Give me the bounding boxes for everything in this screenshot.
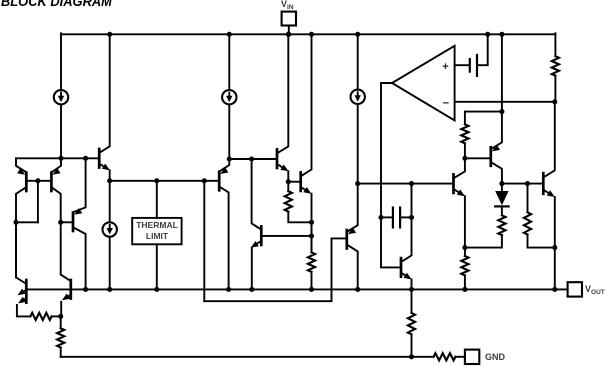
label VIN — [281, 0, 294, 9]
capacitor C1 — [381, 216, 393, 218]
wire 411 down — [411, 184, 413, 255]
wire -input rail — [455, 101, 555, 103]
transistor Q9 (PNP) — [345, 230, 348, 249]
wire top bus left drop to I1 — [60, 33, 62, 90]
resistor R9 horizontal — [30, 313, 51, 320]
wire thermal bottom — [156, 244, 158, 289]
node Q11 collector dot — [462, 156, 467, 161]
node Q2 collector dot — [58, 220, 63, 225]
block THERMAL LIMIT — [132, 218, 181, 244]
terminal VOUT — [568, 282, 582, 296]
wire R11 to GND terminal — [455, 356, 465, 358]
svg-text:−: − — [443, 97, 449, 109]
node D dot — [58, 314, 63, 319]
transistor Q11 (NPN) — [452, 174, 455, 193]
node R4/Q12 emitter dot — [499, 109, 504, 114]
transistor Q6 (NPN) — [276, 149, 279, 168]
node R3 bus dot — [309, 287, 314, 292]
node cap right dot — [409, 215, 414, 220]
node base-tie dot — [35, 178, 40, 183]
resistor R6 — [527, 184, 529, 213]
resistor R8 emitter — [461, 256, 468, 275]
label GND — [485, 352, 505, 362]
node R7 gnd dot — [409, 354, 414, 359]
wire base tie down — [37, 181, 39, 223]
node Q3 collector bus dot — [83, 287, 88, 292]
wire Q6em to Q8 base — [288, 181, 299, 183]
transistor Q2 (PNP) — [50, 173, 53, 191]
node opamp-cap dot — [378, 215, 383, 220]
transistor Q13 (NPN) — [542, 173, 545, 194]
node Q8 top bus dot — [309, 32, 314, 37]
transistor Q12 (PNP) — [489, 147, 492, 166]
wire 204 down — [203, 181, 205, 301]
transistor Q8 (NPN) — [299, 172, 302, 191]
resistor R5 — [498, 215, 505, 235]
wire Q1-Q2 base tie — [26, 180, 51, 182]
wire Q1col down to T1 — [16, 222, 25, 283]
current source I2 — [222, 90, 236, 104]
op-amp U1 — [392, 46, 455, 121]
node R2 dot — [309, 220, 314, 225]
node Q4 top bus dot — [107, 32, 112, 37]
wire +input to battery — [455, 64, 470, 66]
wire Q2col to Q3 base / T2 — [61, 221, 72, 223]
transistor T2 (NPN mirrored) — [69, 280, 72, 299]
node VIN junction — [286, 32, 291, 37]
wire GND return — [61, 356, 434, 358]
node thermal rail dot — [154, 178, 159, 183]
node Q4 emitter dot — [107, 178, 112, 183]
node 527 dot — [525, 181, 530, 186]
node I2 top dot — [227, 32, 232, 37]
node I3 top dot — [355, 32, 360, 37]
resistor R10 — [60, 316, 62, 328]
wire output down to Q10 base — [381, 217, 400, 267]
wire top bus right drop to R1 — [554, 33, 556, 56]
diode D1 — [501, 184, 503, 191]
transistor Q10 (NPN) — [400, 258, 403, 277]
node Q5 collector bus dot — [226, 287, 231, 292]
transistor Q5 (PNP) — [218, 172, 221, 191]
node Q6 emitter dot — [286, 179, 291, 184]
transistor Q7 (NPN mirrored) — [260, 226, 263, 245]
wire thermal top — [156, 181, 158, 218]
wire I1 to node A — [60, 104, 62, 158]
wire R4 top — [465, 111, 502, 113]
node C dot — [355, 181, 360, 186]
node 411 dot — [409, 181, 414, 186]
resistor R11 gnd — [434, 353, 456, 360]
label VOUT — [585, 284, 605, 294]
node dot Q3/Q4 base — [83, 156, 88, 161]
wire node222 left — [16, 221, 38, 223]
battery V1 plates — [469, 59, 471, 72]
transistor Q1 (PNP) — [25, 173, 28, 191]
wire base rail to Q12 — [465, 157, 490, 159]
wire nodeB to Q6 base — [229, 158, 275, 160]
resistor R4 — [464, 112, 466, 125]
transistor T1 (NPN dual emitter) — [25, 280, 28, 303]
wire top VIN bus — [61, 33, 555, 35]
current source I4 thermal — [103, 222, 117, 236]
current source I3 — [351, 90, 365, 104]
node Q9 collector bus dot — [355, 287, 360, 292]
node Q13 bus dot — [552, 287, 557, 292]
heading text (clipped at top) — [1, 0, 112, 9]
wire bus to 502 node — [501, 34, 503, 111]
node Q10 emitter bus dot — [409, 287, 414, 292]
label THERMAL LIMIT — [132, 220, 182, 241]
node 502 top bus dot — [499, 32, 504, 37]
resistor R3 — [311, 222, 313, 252]
node 251 dot — [249, 156, 254, 161]
wire 251 down to Q7 collector — [252, 159, 261, 229]
node 204 rail dot — [202, 178, 207, 183]
wire Q4 emitter node to I4 — [109, 181, 111, 223]
node Q7 emitter bus dot — [249, 287, 254, 292]
wire Q13 emitter to bus — [554, 248, 556, 290]
wire node-A base rail — [16, 157, 98, 159]
wire I4 to bottom bus — [109, 237, 111, 290]
svg-text:+: + — [442, 61, 448, 73]
resistor R7 sense — [411, 289, 413, 313]
transistor Q3 (PNP) — [72, 213, 75, 231]
node thermal bus dot — [154, 287, 159, 292]
node Q1 collector dot — [13, 220, 18, 225]
terminal GND — [465, 350, 479, 364]
resistor R2 base-emitter — [287, 182, 289, 192]
terminal VIN — [282, 12, 296, 26]
wire op-amp output — [381, 83, 392, 217]
transistor Q4 (NPN) — [98, 149, 101, 168]
wire battery to bus — [477, 34, 488, 65]
wire Q12col to Q13 base — [502, 183, 542, 185]
current source I1 — [54, 90, 68, 104]
wire bottom bus — [26, 288, 567, 290]
node I4 bottom dot — [107, 287, 112, 292]
wire R9 to node D — [52, 315, 61, 317]
node R6 dot — [552, 245, 557, 250]
node Q6 top bus dot — [286, 32, 291, 37]
wire I2 to node B — [228, 104, 230, 159]
node R8 bus dot — [462, 287, 467, 292]
node -input dot — [552, 99, 557, 104]
node A dot I1/Q2 — [58, 156, 63, 161]
node battery bus dot — [485, 32, 490, 37]
resistor R1 — [552, 56, 559, 75]
wire I3 to node C — [357, 104, 359, 184]
wire top bus to I2 — [228, 34, 230, 90]
node Q12 collector dot — [499, 181, 504, 186]
node B dot I2/Q5/Q6 — [227, 156, 232, 161]
node R5 dot — [462, 245, 467, 250]
wire mirror drive rail — [110, 180, 218, 182]
wire C to Q11 base — [358, 183, 453, 185]
wire top bus to I3 — [357, 34, 359, 89]
node Q7 base dot — [309, 233, 314, 238]
wire y301 to Q9 base — [204, 238, 345, 301]
